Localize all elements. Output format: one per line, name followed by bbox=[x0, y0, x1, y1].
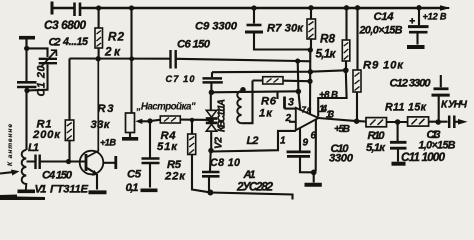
resistor R10 bbox=[366, 118, 387, 127]
svg-text:51к: 51к bbox=[157, 141, 178, 153]
pin 6 wire bbox=[314, 120, 316, 173]
node varicap center tap bbox=[208, 118, 214, 124]
wire varicap node line bbox=[211, 91, 298, 92]
svg-text:V2: V2 bbox=[214, 137, 225, 149]
wire +12V arrow bbox=[441, 7, 449, 9]
capacitor C8 bbox=[209, 151, 212, 171]
svg-text:КВС111А: КВС111А bbox=[217, 99, 228, 132]
svg-text:+5В: +5В bbox=[334, 124, 350, 135]
wire to op-amp pins 1-2 bbox=[211, 131, 296, 152]
node R6-R7line junction bbox=[307, 79, 312, 84]
capacitor C11 bbox=[397, 122, 399, 141]
node C11 junction bbox=[395, 119, 401, 125]
capacitor C9 bbox=[253, 8, 255, 24]
capacitor C7 bbox=[211, 72, 213, 77]
node top-wire junction R9 bbox=[355, 5, 360, 10]
svg-text:C4 150: C4 150 bbox=[42, 170, 73, 182]
wire C2 branch bbox=[27, 48, 48, 90]
ground C5 bbox=[141, 189, 158, 193]
inductor L2 bbox=[237, 91, 241, 123]
svg-text:С11 1000: С11 1000 bbox=[401, 150, 445, 164]
capacitor C14 bbox=[418, 8, 420, 45]
ground L1 bbox=[18, 190, 36, 194]
resistor R5 bbox=[192, 120, 210, 192]
svg-text:2УС282: 2УС282 bbox=[236, 180, 273, 194]
ground C14 bbox=[407, 45, 425, 49]
svg-text:R11 15к: R11 15к bbox=[385, 102, 427, 114]
svg-text:9: 9 bbox=[303, 138, 309, 149]
wire R7 line down to pin 8 bbox=[309, 50, 311, 115]
ground R3 bbox=[122, 137, 138, 141]
resistor R7 bbox=[310, 8, 312, 50]
wire R3 wiper bbox=[141, 120, 150, 122]
resistor R6 bbox=[253, 79, 310, 82]
svg-text:C8 10: C8 10 bbox=[210, 157, 240, 169]
transistor V1 circle bbox=[80, 151, 104, 175]
wire L1 main line bbox=[25, 40, 27, 150]
wire H2 +8V line bbox=[212, 70, 346, 72]
node bus1 corner junction bbox=[295, 59, 300, 64]
node top-wire junction R7 bbox=[308, 5, 313, 10]
pin 3 lead bbox=[284, 108, 296, 110]
svg-text:13: 13 bbox=[326, 110, 335, 121]
svg-text:К УНЧ: К УНЧ bbox=[441, 100, 468, 111]
svg-text:3: 3 bbox=[288, 97, 294, 109]
capacitor C1 bbox=[17, 82, 37, 87]
node top-wire junction R2 bbox=[96, 5, 101, 10]
svg-text:1к: 1к bbox=[259, 108, 273, 120]
svg-text:C9 3300: C9 3300 bbox=[195, 21, 238, 33]
wire pin 7 bbox=[298, 91, 300, 110]
svg-text:14: 14 bbox=[319, 104, 328, 115]
wire top +12V rail bbox=[52, 7, 441, 9]
wire output pin 13 bbox=[319, 118, 367, 122]
svg-text:L2: L2 bbox=[247, 135, 260, 147]
svg-text:5,1к: 5,1к bbox=[366, 142, 386, 154]
node top-wire junction R3 feed bbox=[129, 5, 134, 10]
svg-text:C1 20: C1 20 bbox=[36, 65, 48, 96]
capacitor C6 bbox=[171, 50, 176, 69]
ground terminal top-left bbox=[19, 36, 35, 40]
svg-text:R5: R5 bbox=[167, 159, 182, 171]
resistor R1 bbox=[68, 59, 70, 162]
resistor R4 bbox=[150, 120, 160, 121]
svg-text:C3 6800: C3 6800 bbox=[44, 18, 86, 32]
svg-text:C6 150: C6 150 bbox=[177, 39, 211, 51]
node pin6/C10 ground junction bbox=[311, 170, 317, 176]
svg-text:R9 10к: R9 10к bbox=[363, 60, 404, 72]
node C8 ground junction bbox=[207, 190, 213, 196]
resistor R11 bbox=[408, 117, 429, 126]
svg-text:5,1к: 5,1к bbox=[316, 47, 337, 61]
node top-wire junction C9 bbox=[251, 5, 256, 10]
capacitor C12 bbox=[439, 75, 441, 121]
svg-text:+1В: +1В bbox=[100, 138, 116, 148]
node C7/varicap junction bbox=[209, 90, 215, 96]
wire pin 3 feeder bbox=[276, 91, 278, 99]
svg-text:3300: 3300 bbox=[329, 153, 354, 165]
node C2 branch top bbox=[24, 46, 29, 51]
svg-text:33к: 33к bbox=[91, 119, 111, 131]
symbol plus C14 bbox=[410, 18, 416, 24]
node varicap bottom junction bbox=[208, 148, 214, 154]
svg-text:C14: C14 bbox=[374, 11, 395, 23]
svg-text:L1: L1 bbox=[28, 142, 39, 154]
node H2-R7line junction bbox=[308, 69, 313, 74]
wire V1 case lead bbox=[103, 162, 115, 164]
svg-text:C7 10: C7 10 bbox=[166, 74, 196, 84]
node L2 top bbox=[240, 87, 246, 93]
transistor V1 emitter bbox=[87, 168, 97, 190]
node C9/R7 junction bbox=[308, 47, 313, 52]
wire bus1 collector line bbox=[70, 59, 311, 62]
wire antenna arrow bbox=[0, 172, 12, 173]
svg-text:6: 6 bbox=[311, 131, 317, 142]
svg-text:+12 В: +12 В bbox=[423, 12, 447, 22]
node wiper junction bbox=[147, 118, 152, 123]
svg-text:С12 3300: С12 3300 bbox=[390, 78, 432, 90]
capacitor C3 bbox=[51, 2, 54, 15]
node C2 branch bottom bbox=[24, 88, 29, 93]
node top-wire junction R8 bbox=[344, 5, 349, 10]
svg-text:8: 8 bbox=[307, 107, 312, 116]
capacitor C13 bbox=[449, 116, 454, 129]
ground V1 emitter bbox=[89, 190, 107, 194]
node R8 bottom junction bbox=[343, 67, 349, 73]
pin 2 lead bbox=[289, 121, 296, 123]
svg-text:+8 В: +8 В bbox=[319, 90, 338, 101]
wire R3 feed from +12V bbox=[130, 8, 132, 113]
svg-text:R8: R8 bbox=[320, 32, 335, 46]
svg-text:2: 2 bbox=[285, 113, 292, 124]
op-amp A1 triangle bbox=[296, 108, 319, 130]
node C12 junction bbox=[435, 119, 441, 125]
svg-text:R10: R10 bbox=[368, 130, 386, 142]
wire V_a bus corner down bbox=[297, 61, 300, 91]
node output R9 junction bbox=[354, 118, 360, 124]
node top-wire junction C14 bbox=[416, 5, 421, 10]
svg-text:R6: R6 bbox=[261, 96, 277, 108]
node R2-bus1 junction bbox=[96, 56, 101, 61]
capacitor C2 trimmer bbox=[39, 59, 57, 63]
node R5 tap bbox=[190, 118, 195, 123]
svg-text:R7 30к: R7 30к bbox=[267, 23, 304, 35]
svg-text:К антенне: К антенне bbox=[7, 124, 14, 166]
svg-text:V1: V1 bbox=[35, 184, 47, 196]
svg-text:4...15: 4...15 bbox=[62, 36, 89, 48]
svg-text:22к: 22к bbox=[164, 171, 186, 183]
svg-text:200к: 200к bbox=[32, 129, 61, 141]
node C4/R1/base junction bbox=[66, 159, 71, 164]
svg-text:20,0×15В: 20,0×15В bbox=[359, 25, 403, 37]
svg-text:ГТ311Е: ГТ311Е bbox=[50, 184, 88, 196]
capacitor C5 bbox=[149, 121, 151, 158]
svg-text:C5: C5 bbox=[127, 169, 142, 181]
wire bottom ground run bbox=[210, 193, 292, 200]
transistor V1 base bar bbox=[85, 154, 88, 171]
resistor R8 bbox=[345, 8, 348, 70]
svg-text:1: 1 bbox=[280, 136, 286, 147]
wire output arrow bbox=[456, 121, 460, 123]
varicap V2 pair bbox=[210, 92, 212, 111]
transistor V1 collector bbox=[87, 59, 98, 157]
wire base line / capacitor C4 bbox=[27, 160, 86, 162]
node bus1-R3 crossing blob bbox=[129, 56, 134, 61]
resistor R2 bbox=[98, 8, 100, 59]
svg-text:C2: C2 bbox=[49, 37, 62, 49]
inductor L1 bbox=[22, 150, 27, 190]
svg-text:„Настройка": „Настройка" bbox=[136, 102, 196, 113]
resistor R3 tuning pot bbox=[126, 113, 135, 133]
ground op-amp bbox=[305, 183, 322, 187]
wire pin 14 bbox=[318, 70, 346, 116]
ground C11 bbox=[392, 162, 406, 166]
pin 3 bar bbox=[283, 97, 286, 109]
node pin7 junction bbox=[296, 89, 302, 95]
pin 9 wire + capacitor C10 bbox=[299, 128, 301, 151]
wire bottom-left scan mark bbox=[0, 195, 45, 201]
svg-text:R2: R2 bbox=[108, 30, 124, 44]
svg-text:0,1: 0,1 bbox=[126, 182, 139, 194]
resistor R9 bbox=[356, 8, 359, 121]
